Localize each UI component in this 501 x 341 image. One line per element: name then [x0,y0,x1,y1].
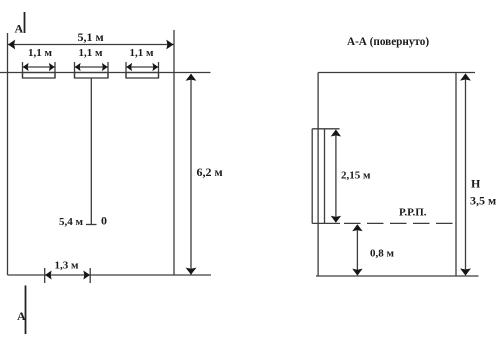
wall top line [0,72,211,74]
svg-text:Р.Р.П.: Р.Р.П. [399,207,427,219]
window W3 rect [126,73,159,79]
wall bottom line [8,274,212,276]
wall right edge [173,30,175,275]
window W1 dimension line [23,66,55,68]
arrowhead W2 left [75,63,81,71]
arrowhead W1 right [49,63,55,71]
arrowhead 2,15 down [331,216,341,223]
window W2 tick left [74,62,76,78]
window W2 dimension line [75,66,108,68]
wall left edge [7,33,9,275]
svg-text:0: 0 [101,214,107,228]
section view outline right edge [455,73,457,277]
dashed line R.R.P. level [344,222,456,224]
arrowhead H down [460,268,471,275]
dimension line H vertical [465,74,467,275]
arrowhead W2 right [102,63,108,71]
arrowhead 0,8 up [352,224,362,231]
window W1 tick right [54,62,56,78]
svg-text:1,3 м: 1,3 м [55,260,80,272]
dimension line 5,1 m [8,44,174,46]
dimension 1,3 m tick right [89,268,91,283]
dimension line 2,15 m vertical [335,130,337,222]
window W1 rect [23,73,56,79]
svg-text:3,5 м: 3,5 м [470,194,496,208]
arrowhead 0,8 down [352,269,362,276]
section view outline bottom line [316,275,479,277]
dimension line 0,8 m vertical [356,225,358,274]
window band top tick [312,128,339,130]
arrowhead 2,15 up [331,130,341,137]
arrowhead 1,3 right [83,271,90,280]
window band left line [311,129,313,224]
arrowhead W3 right [152,63,158,71]
svg-text:1,1 м: 1,1 м [79,47,104,59]
window band bottom tick [312,222,340,224]
section view outline top line [318,72,475,74]
section mark A bottom line [25,286,27,335]
dimension 1,3 m tick left [44,268,46,283]
arrowhead W1 left [23,63,29,71]
svg-text:1,1 м: 1,1 м [130,47,155,59]
arrowhead W3 left [126,63,132,71]
svg-text:Н: Н [471,177,481,191]
svg-text:5,1 м: 5,1 м [78,30,104,44]
section mark A top line [24,12,26,33]
window band right line [324,129,326,224]
svg-text:А-А (повернуто): А-А (повернуто) [347,36,429,48]
svg-text:А: А [17,309,26,323]
svg-text:А: А [15,22,24,36]
arrowhead H up [460,73,471,80]
svg-text:6,2 м: 6,2 м [197,165,223,179]
svg-text:0,8 м: 0,8 м [370,248,395,260]
axis bottom tick (perpendicular mark) [86,224,97,226]
window W1 tick left [22,62,24,78]
arrowhead 1,3 left [45,271,52,280]
svg-text:5,4 м: 5,4 м [59,216,84,228]
window W3 tick left [125,62,127,78]
window W2 rect [75,73,109,79]
svg-text:2,15 м: 2,15 м [341,170,371,182]
section view outline left edge [317,73,319,277]
dimension line 6,2 m vertical [190,74,192,275]
window W3 tick right [158,62,160,78]
arrowhead 5,1 right [166,40,173,50]
svg-text:1,1 м: 1,1 м [28,47,53,59]
arrowhead 5,1 left [8,40,15,50]
window W2 tick right [107,62,109,78]
axis middle line [90,78,92,225]
arrowhead 6,2 down [186,268,197,275]
window W3 dimension line [127,66,159,68]
arrowhead 6,2 up [186,74,197,81]
